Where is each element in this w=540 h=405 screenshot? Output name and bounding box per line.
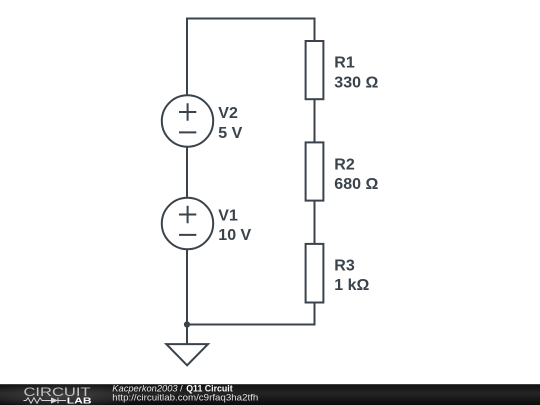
svg-text:5 V: 5 V: [218, 125, 242, 142]
label V2 value 5 V: [218, 105, 242, 142]
svg-text:680 Ω: 680 Ω: [334, 176, 378, 193]
resistor R3: [306, 244, 324, 303]
label R1 value 330 ohm: [334, 54, 378, 91]
wire R1 pin 2 to R2 pin 1: [314, 99, 316, 143]
svg-text:V1: V1: [218, 208, 238, 225]
svg-text:http://circuitlab.com/c9rfaq3h: http://circuitlab.com/c9rfaq3ha2tfh: [112, 393, 258, 404]
svg-text:LAB: LAB: [67, 395, 92, 405]
voltage source V2: [162, 95, 213, 146]
wire V1 minus to bottom node: [186, 249, 188, 325]
wire top horizontal: [186, 18, 315, 20]
wire left rail top (node to V2 plus terminal): [186, 18, 188, 96]
label V1 value 10 V: [218, 208, 251, 244]
resistor R1: [306, 41, 324, 99]
ground symbol: [166, 344, 208, 365]
svg-text:R2: R2: [334, 156, 355, 173]
CircuitLab logo resistor zigzag and diode: [24, 398, 67, 404]
label R2 value 680 ohm: [334, 156, 378, 193]
wire ground stub: [186, 325, 188, 345]
svg-text:1 kΩ: 1 kΩ: [334, 277, 369, 294]
wire R3 pin 2 to bottom rail: [314, 303, 316, 325]
wire R2 pin 2 to R3 pin 1: [314, 201, 316, 245]
wire right rail top stub to R1 pin 1: [314, 18, 316, 42]
voltage source V1: [162, 198, 213, 249]
wire bottom horizontal: [187, 324, 316, 326]
junction node dot: [184, 321, 190, 327]
svg-text:R1: R1: [334, 54, 355, 71]
svg-text:R3: R3: [334, 258, 355, 275]
resistor R2: [306, 142, 324, 200]
footer bar: [0, 384, 540, 405]
wire V2 minus to V1 plus: [186, 146, 188, 199]
svg-text:10 V: 10 V: [218, 227, 251, 244]
svg-text:V2: V2: [218, 105, 238, 122]
label R3 value 1 kohm: [334, 258, 369, 294]
svg-text:330 Ω: 330 Ω: [334, 74, 378, 91]
